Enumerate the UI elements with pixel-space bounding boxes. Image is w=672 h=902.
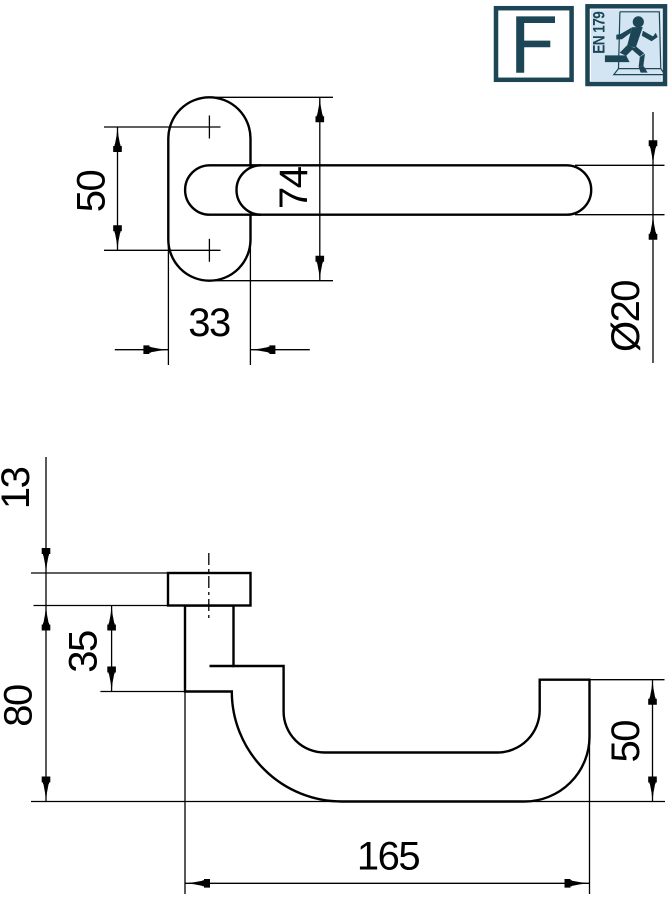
icon EN179 running man torso <box>627 27 643 47</box>
icon EN179 door frame <box>619 12 661 69</box>
arrow 74 up <box>316 97 325 122</box>
svg-text:33: 33 <box>188 301 230 345</box>
svg-text:Ø20: Ø20 <box>604 281 648 352</box>
icon EN179 running man front foot <box>639 66 648 72</box>
extension line 50-dim top (merged with centre-mark arm) <box>104 126 221 128</box>
icon EN179 running man rear shin-foot bar <box>605 55 630 62</box>
svg-text:74: 74 <box>272 166 316 209</box>
extension line 13-dim top <box>31 572 168 574</box>
extension line 80-dim top <box>34 605 169 607</box>
extension line 33-dim left <box>167 240 169 365</box>
extension line 50-dim bottom (merged with centre-mark arm) <box>104 249 221 251</box>
rosette outline (oval escutcheon) <box>168 97 250 280</box>
arrow 50-right up <box>648 680 657 705</box>
svg-text:EN 179: EN 179 <box>590 11 608 54</box>
icon EN179 running man front arm <box>642 31 658 42</box>
svg-text:13: 13 <box>0 467 38 509</box>
arrow 50 up <box>113 127 122 152</box>
dimension line diameter-20 <box>652 112 654 363</box>
svg-text:50: 50 <box>69 171 113 213</box>
grip tube seam line inside neck <box>210 665 235 667</box>
svg-text:80: 80 <box>0 685 40 727</box>
svg-text:35: 35 <box>61 631 105 673</box>
icon F (fire door rating) box <box>496 8 572 80</box>
grip-to-neck transition arc <box>237 165 262 214</box>
arrow diameter-20 pointing up <box>649 215 658 240</box>
handle profile outline (side view) <box>185 606 590 802</box>
extension line 74-dim bottom <box>209 280 333 282</box>
arrow 165 pointing right <box>565 879 590 888</box>
extension line 50-dim right top <box>590 679 665 681</box>
arrow 35 up <box>107 606 116 631</box>
arrow diameter-20 pointing down <box>649 140 658 165</box>
svg-text:50: 50 <box>604 721 648 763</box>
arrow 74 down <box>316 256 325 281</box>
centre mark vertical arm, upper screw hole <box>208 116 210 139</box>
common baseline extension (80 / 50 dims) <box>31 801 665 803</box>
extension line 165-dim right <box>589 737 591 895</box>
arrow 50-right down <box>648 777 657 802</box>
arrow 50 down <box>113 225 122 250</box>
icon EN179 blue panel <box>591 10 662 82</box>
arrow 33 pointing right <box>143 345 168 354</box>
svg-text:165: 165 <box>357 834 419 878</box>
arrow 13 pointing down <box>42 548 51 573</box>
extension line 33-dim right <box>249 214 251 365</box>
dimension line 33 right stub <box>250 349 309 351</box>
centre mark vertical arm, lower screw hole <box>208 239 210 262</box>
dimension line 35 <box>111 606 113 692</box>
arrow 35 down <box>107 667 116 692</box>
arrow 80 down <box>42 777 51 802</box>
rosette side view rectangle <box>168 573 251 606</box>
arrow 33 pointing left <box>250 345 275 354</box>
dimension line 165 <box>185 882 590 884</box>
extension line 35-dim bottom <box>100 691 185 693</box>
arrow 80 up <box>42 606 51 631</box>
icon EN179 box <box>588 6 666 84</box>
icon EN179 floor sill <box>614 69 665 75</box>
centreline (dash-dot) <box>208 553 210 622</box>
arrow 165 pointing left <box>185 879 210 888</box>
dimension line 50 <box>117 127 119 250</box>
dimension line 74 <box>319 97 321 280</box>
extension line diameter-20 top <box>575 164 665 166</box>
dimension line 50 right <box>652 680 654 802</box>
extension line diameter-20 bottom <box>575 214 665 216</box>
icon EN179 running man rear thigh <box>620 45 635 56</box>
left dimension column (13 + 80) <box>45 457 47 802</box>
icon EN179 running man front thigh <box>632 46 644 56</box>
dimension line 33 left stub <box>115 349 169 351</box>
extension line 74-dim top <box>209 96 333 98</box>
extension line 165-dim left <box>184 692 186 895</box>
icon EN179 running man front shin <box>639 54 645 67</box>
lever handle outline (grip bar, front view) <box>185 165 591 214</box>
icon EN179 running man rear arm <box>616 27 632 39</box>
icon EN179 running man head <box>633 16 644 27</box>
icon F letter <box>516 16 555 72</box>
